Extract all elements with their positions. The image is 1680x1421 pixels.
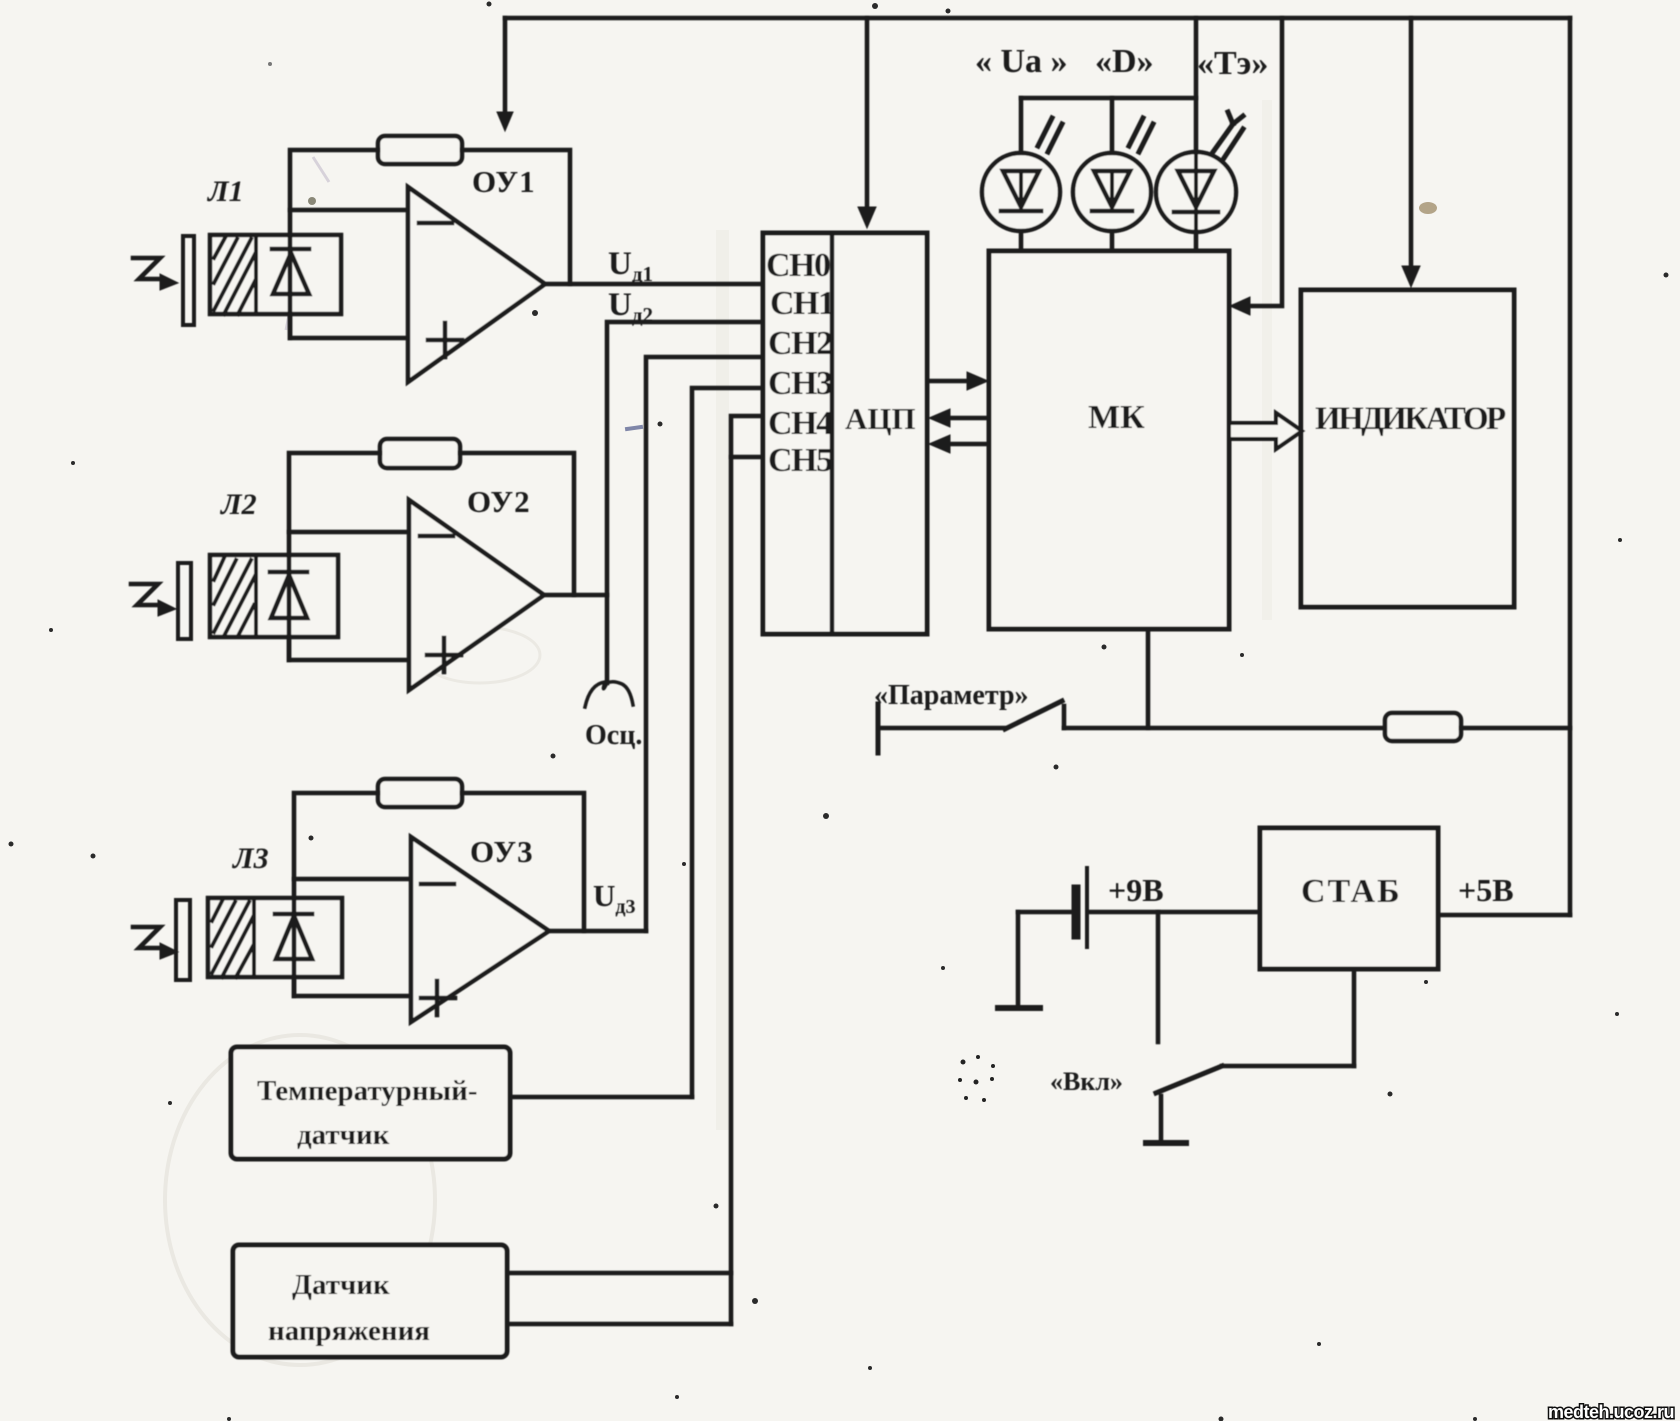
svg-text:medteh.ucoz.ru: medteh.ucoz.ru — [1548, 1402, 1674, 1421]
light arrow into PD1 — [133, 258, 178, 290]
svg-text:+5В: +5В — [1458, 872, 1514, 908]
wire: +5V output — [1438, 913, 1570, 918]
light arrow into PD3 — [133, 927, 178, 959]
wire: LED top bus — [1021, 96, 1196, 101]
wire: OU3 inverting input — [294, 877, 411, 882]
block arrow MK to indicator — [1229, 413, 1302, 449]
wire: top power rail — [505, 16, 1570, 21]
svg-text:СТАБ: СТАБ — [1301, 873, 1402, 910]
wire: rail drop to MK right side (arrow) — [1230, 18, 1282, 315]
microcontroller block МК — [989, 251, 1229, 629]
wire: CH5 stub — [731, 455, 763, 460]
svg-text:ОУ2: ОУ2 — [467, 484, 531, 519]
wire: switch to R4 — [1064, 726, 1385, 731]
svg-text:CH5: CH5 — [768, 442, 832, 479]
voltage sensor block — [233, 1245, 507, 1357]
wire: CH4 column down to voltage sensor — [731, 416, 763, 1324]
wire: rail drop to LED HL3 — [1194, 18, 1199, 251]
op-amp OU1 — [408, 187, 545, 382]
wire: R3 right to output node — [462, 793, 584, 931]
wire: MK bottom stem — [1146, 629, 1151, 728]
bus arrow MK to ADC lower — [929, 435, 989, 453]
wire: R2 right to output node — [460, 453, 574, 595]
wire: R2 left to inverting column — [289, 453, 409, 660]
switch SA1 «Параметр» — [878, 701, 1064, 753]
svg-text:CH2: CH2 — [768, 325, 832, 362]
svg-text:« Uа »: « Uа » — [975, 43, 1068, 80]
svg-text:«Тэ»: «Тэ» — [1197, 45, 1268, 82]
wire: rail drop to OU1 feedback node (arrow) — [497, 18, 513, 131]
battery GB1 — [1076, 868, 1087, 947]
wire: temperature sensor output — [510, 1095, 692, 1100]
wire: voltage sensor upper output — [507, 1271, 731, 1276]
switch SA2 «Вкл» — [1156, 969, 1354, 1093]
svg-text:Датчик: Датчик — [292, 1269, 390, 1301]
svg-text:датчик: датчик — [297, 1119, 390, 1151]
svg-text:«Вкл»: «Вкл» — [1050, 1067, 1123, 1096]
resistor R1 (OU1 feedback) — [378, 136, 462, 164]
svg-text:CH0: CH0 — [766, 247, 830, 284]
photodiode PD2 (Л2) — [178, 555, 338, 660]
wire: OU2 output to CH1 column — [544, 593, 607, 598]
voltage regulator block СТАБ — [1260, 828, 1438, 969]
indicator block ИНДИКАТОР — [1301, 290, 1514, 607]
wire: R1 left to inverting column — [290, 150, 408, 338]
photodiode PD1 (Л1) — [183, 235, 341, 338]
wire: CH1 column down to Осц node — [607, 322, 763, 683]
svg-text:CH4: CH4 — [768, 405, 833, 442]
svg-text:«D»: «D» — [1095, 43, 1154, 80]
wire: OU3 output to CH2 column — [549, 929, 646, 934]
bus arrow MK to ADC upper — [929, 409, 989, 427]
test point Осц — [585, 682, 633, 707]
wire: battery to STAB — [1089, 910, 1260, 915]
wire: CH3 column down to temperature sensor — [692, 388, 763, 1097]
ground GND2 — [1146, 1096, 1186, 1143]
wire: R4 to right rail — [1461, 726, 1570, 731]
svg-text:Температурный-: Температурный- — [257, 1075, 478, 1107]
op-amp OU3 — [411, 837, 549, 1022]
wire: +9V drop to switch SA2 — [1156, 912, 1161, 1042]
op-amp OU2 — [409, 500, 544, 690]
wire: OU2 inverting input — [289, 530, 409, 535]
wire: OU1 inverting input — [290, 208, 408, 213]
light arrow into PD2 — [131, 584, 176, 616]
ground GND1 — [998, 912, 1040, 1008]
svg-text:+9В: +9В — [1108, 872, 1164, 908]
svg-text:Осц.: Осц. — [585, 720, 642, 751]
label Температурный датчик — [257, 1075, 478, 1151]
wire: R3 left to inverting column — [294, 793, 411, 996]
svg-text:Л2: Л2 — [219, 488, 257, 521]
wire: far right rail down to +5V — [1568, 18, 1573, 915]
svg-text:ОУ3: ОУ3 — [470, 834, 534, 869]
svg-text:ИНДИКАТОР: ИНДИКАТОР — [1315, 401, 1506, 437]
LED HL3 «Тэ» — [1156, 98, 1243, 251]
svg-text:«Параметр»: «Параметр» — [874, 680, 1029, 711]
svg-text:Л1: Л1 — [206, 175, 244, 208]
resistor R4 — [1385, 713, 1461, 741]
wire: rail drop to ADC top (arrow) — [858, 18, 876, 228]
wire: voltage sensor lower output — [507, 1322, 731, 1327]
temperature sensor block — [231, 1047, 510, 1159]
svg-text:напряжения: напряжения — [268, 1315, 430, 1347]
bus arrow ADC to MK — [927, 372, 988, 390]
svg-text:ОУ1: ОУ1 — [472, 164, 536, 199]
wire: CH2 column down to OU3 output — [646, 357, 763, 931]
svg-text:CH1: CH1 — [770, 285, 834, 322]
resistor R3 (OU3 feedback) — [378, 779, 462, 807]
svg-text:МК: МК — [1088, 399, 1145, 436]
LED HL1 «Ua» — [982, 98, 1062, 251]
LED HL2 «D» — [1073, 98, 1153, 251]
svg-text:CH3: CH3 — [768, 365, 832, 402]
watermark — [1548, 1402, 1674, 1421]
label Датчик напряжения — [268, 1269, 430, 1347]
svg-text:АЦП: АЦП — [845, 401, 916, 436]
wire: battery left lead — [1018, 910, 1073, 915]
photodiode PD3 (Л3) — [176, 898, 342, 996]
wire: OU1 output Uд1 to CH0 — [545, 282, 763, 287]
wire: R1 right to output node — [462, 150, 570, 284]
resistor R2 (OU2 feedback) — [380, 439, 460, 468]
ADC block АЦП — [763, 233, 927, 634]
wire: rail drop to indicator top (arrow) — [1402, 18, 1420, 287]
svg-text:Л3: Л3 — [231, 842, 269, 875]
